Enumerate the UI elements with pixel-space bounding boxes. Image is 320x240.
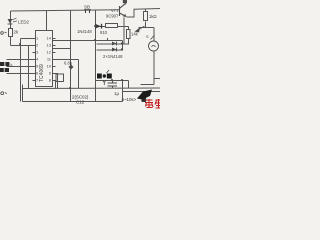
transistor collector blob	[123, 0, 127, 3]
wire base chain	[118, 26, 129, 28]
wire y40 extension	[96, 40, 123, 42]
capacitor C11 blob	[69, 65, 74, 70]
wire vertical bus x20	[20, 39, 22, 102]
svg-text:1kΩ: 1kΩ	[149, 14, 157, 19]
switch S slash	[151, 35, 155, 40]
IC pin numbers right	[47, 36, 52, 83]
IC right pin stubs	[53, 39, 56, 81]
junction dot diode row	[121, 42, 123, 44]
wire left pot row1	[7, 59, 36, 61]
svg-text:9: 9	[49, 71, 52, 76]
svg-text:6.8μ: 6.8μ	[64, 61, 73, 66]
resistor R4 right	[144, 12, 148, 21]
bell B1	[149, 41, 159, 51]
svg-text:14k: 14k	[131, 32, 139, 37]
LED LED2 symbol	[8, 18, 18, 24]
watermark black stroke	[137, 90, 152, 100]
wire switch arm	[137, 26, 145, 31]
wire pin14 to right	[53, 40, 96, 42]
svg-text:4~10s>: 4~10s>	[122, 97, 137, 102]
wire collector stub	[125, 1, 127, 5]
svg-text:TC4069: TC4069	[39, 64, 45, 82]
terminal battery minus	[1, 92, 7, 95]
wire node row to IC pin2	[11, 45, 36, 47]
IC left pin stubs	[33, 39, 36, 81]
svg-text:910: 910	[100, 30, 108, 35]
resistor R1 left	[9, 29, 13, 37]
svg-text:1μ: 1μ	[114, 91, 120, 96]
wire left pot row3	[7, 73, 36, 75]
wire diode1 stub	[97, 43, 123, 45]
svg-text:10: 10	[47, 64, 52, 69]
label C10 dark block	[97, 74, 112, 79]
wire diode branch	[96, 26, 106, 28]
wire diode2 stub	[97, 49, 123, 51]
wire x107 tick	[107, 38, 109, 41]
polarity mark Y	[103, 80, 107, 85]
svg-text:VT1: VT1	[111, 8, 119, 13]
svg-text:8: 8	[49, 78, 52, 83]
svg-text:2×1N4148: 2×1N4148	[103, 54, 123, 59]
junction dots	[19, 25, 123, 89]
svg-text:9C907: 9C907	[106, 14, 119, 19]
transistor emitter arrow	[123, 14, 127, 17]
wire IC top pin	[46, 11, 48, 31]
svg-text:C12: C12	[76, 100, 85, 105]
watermark red glyph 1	[145, 99, 153, 108]
svg-text:2: 2	[36, 43, 39, 48]
svg-text:LED2: LED2	[18, 20, 30, 25]
component box R bottom	[56, 74, 64, 82]
tick mark	[107, 70, 110, 73]
svg-text:1: 1	[36, 36, 39, 41]
wire y91 right	[123, 91, 161, 93]
wire left pot row2	[7, 66, 36, 68]
wire pin8 drop	[53, 81, 56, 89]
svg-text:11: 11	[47, 57, 52, 62]
wire emitter to rail	[127, 9, 135, 17]
watermark red glyph 2	[155, 99, 160, 109]
wire y80 horizontal	[96, 80, 129, 82]
wire x129 resistor chain	[128, 27, 130, 31]
wire vertical bus x28	[28, 46, 30, 89]
wire bell stem	[153, 28, 155, 42]
wire step right	[154, 78, 161, 80]
wire bottom rail 2	[23, 101, 123, 103]
svg-text:2k: 2k	[14, 30, 19, 35]
wire y27 right	[139, 27, 155, 29]
diode VD2	[112, 42, 117, 46]
wire pin9 drop	[53, 74, 58, 89]
dark glyph	[142, 97, 147, 102]
svg-text:4: 4	[36, 57, 39, 62]
wire top rail left	[11, 10, 120, 11]
IC U1 TC4069 body	[36, 31, 53, 87]
resistor R2 horizontal	[106, 24, 118, 28]
svg-text:SB: SB	[84, 5, 90, 10]
switch arm arrowhead	[135, 28, 141, 33]
wire cap stub	[112, 81, 114, 84]
diode VD3	[112, 48, 117, 52]
svg-text:1N4148: 1N4148	[77, 29, 92, 34]
wire x78 vertical	[53, 59, 79, 61]
svg-text:3: 3	[36, 50, 39, 55]
wire LED drop	[10, 11, 12, 46]
terminal battery plus	[1, 32, 7, 35]
wire parallel drop	[123, 27, 125, 45]
wire x95 vertical	[95, 11, 97, 102]
wire bottom rail 1	[23, 87, 161, 90]
label RP block	[0, 62, 9, 66]
svg-text:S: S	[146, 35, 149, 39]
svg-text:k: k	[11, 63, 13, 67]
wire x122 vertical	[122, 41, 124, 51]
svg-text:12: 12	[47, 50, 52, 55]
label 1M block	[0, 68, 9, 72]
wire x70 vertical	[53, 48, 71, 50]
wire x145 drop	[145, 9, 147, 13]
transistor VT1	[120, 4, 127, 17]
capacitor C12 plates	[108, 83, 118, 86]
diode VD1 1N4148	[95, 24, 102, 29]
IC pin numbers left	[36, 36, 39, 83]
svg-text:14: 14	[47, 36, 52, 41]
wire pin1 row	[21, 38, 36, 40]
svg-text:13: 13	[47, 43, 52, 48]
wire bottom left vertical	[22, 85, 24, 102]
wire top rail right	[134, 8, 161, 11]
resistor R3 vertical mid	[127, 30, 131, 39]
wire x122 lower vertical	[122, 81, 124, 102]
wire bell bottom	[153, 52, 155, 79]
